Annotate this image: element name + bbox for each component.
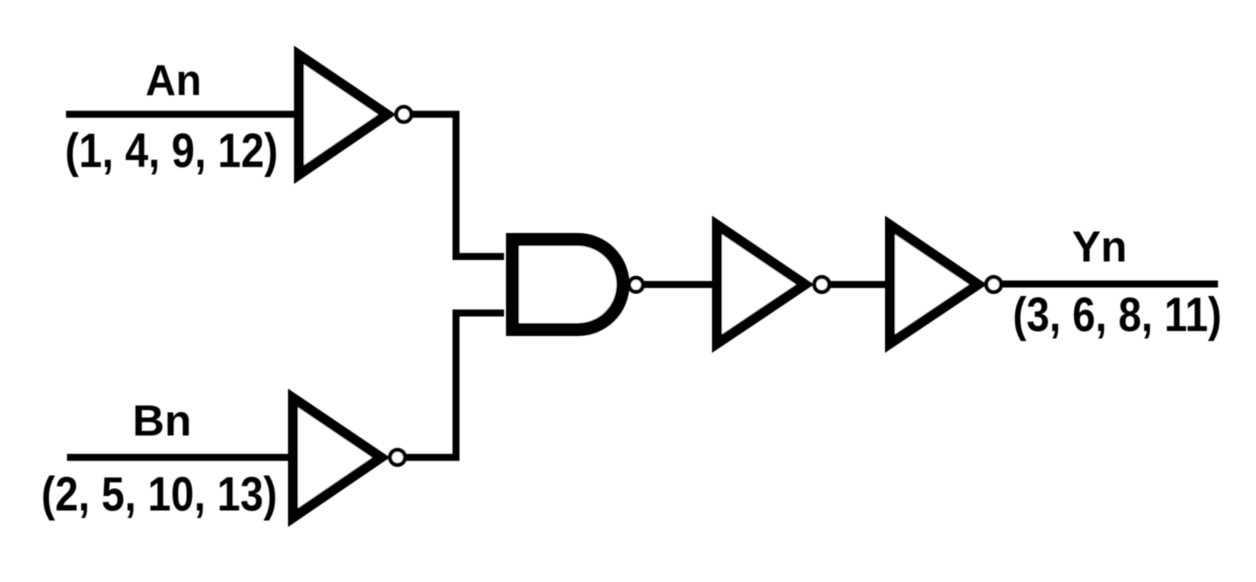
pin numbers (2, 5, 10, 13) for Bn bbox=[41, 469, 277, 522]
node Yn label bbox=[1072, 223, 1127, 272]
NAND gate U3 bbox=[513, 240, 624, 330]
inverter U2 (Bn input inverter) bbox=[293, 398, 381, 518]
node An label bbox=[146, 56, 202, 105]
pin numbers (1, 4, 9, 12) for An bbox=[65, 125, 278, 178]
bubble U5 output bbox=[986, 277, 1001, 292]
wire Bn input bbox=[67, 454, 293, 461]
wire Yn output bbox=[1001, 281, 1218, 288]
wire U4 output to U5 input bbox=[829, 281, 891, 288]
wire U2 output to NAND bottom input bbox=[405, 313, 504, 457]
inverter U1 (An input inverter) bbox=[299, 55, 387, 175]
bubble U1 output bbox=[396, 107, 411, 122]
svg-text:(1, 4, 9, 12): (1, 4, 9, 12) bbox=[65, 125, 278, 178]
svg-text:Bn: Bn bbox=[133, 397, 192, 446]
svg-text:(3, 6, 8, 11): (3, 6, 8, 11) bbox=[1013, 289, 1222, 342]
svg-text:An: An bbox=[146, 56, 202, 105]
inverter U5 (second output buffer) bbox=[890, 225, 978, 344]
wire U1 output to NAND top input bbox=[411, 114, 504, 256]
pin numbers (3, 6, 8, 11) for Yn bbox=[1013, 289, 1222, 342]
bubble U4 output bbox=[814, 277, 829, 292]
wire U3 output to U4 input bbox=[644, 281, 718, 288]
svg-text:(2, 5, 10, 13): (2, 5, 10, 13) bbox=[41, 469, 277, 522]
svg-text:Yn: Yn bbox=[1072, 223, 1127, 272]
inverter U4 (first output buffer) bbox=[717, 225, 805, 344]
bubble U2 output bbox=[390, 450, 405, 465]
bubble U3 output bbox=[629, 278, 643, 292]
node Bn label bbox=[133, 397, 192, 446]
wire An input bbox=[66, 111, 299, 118]
